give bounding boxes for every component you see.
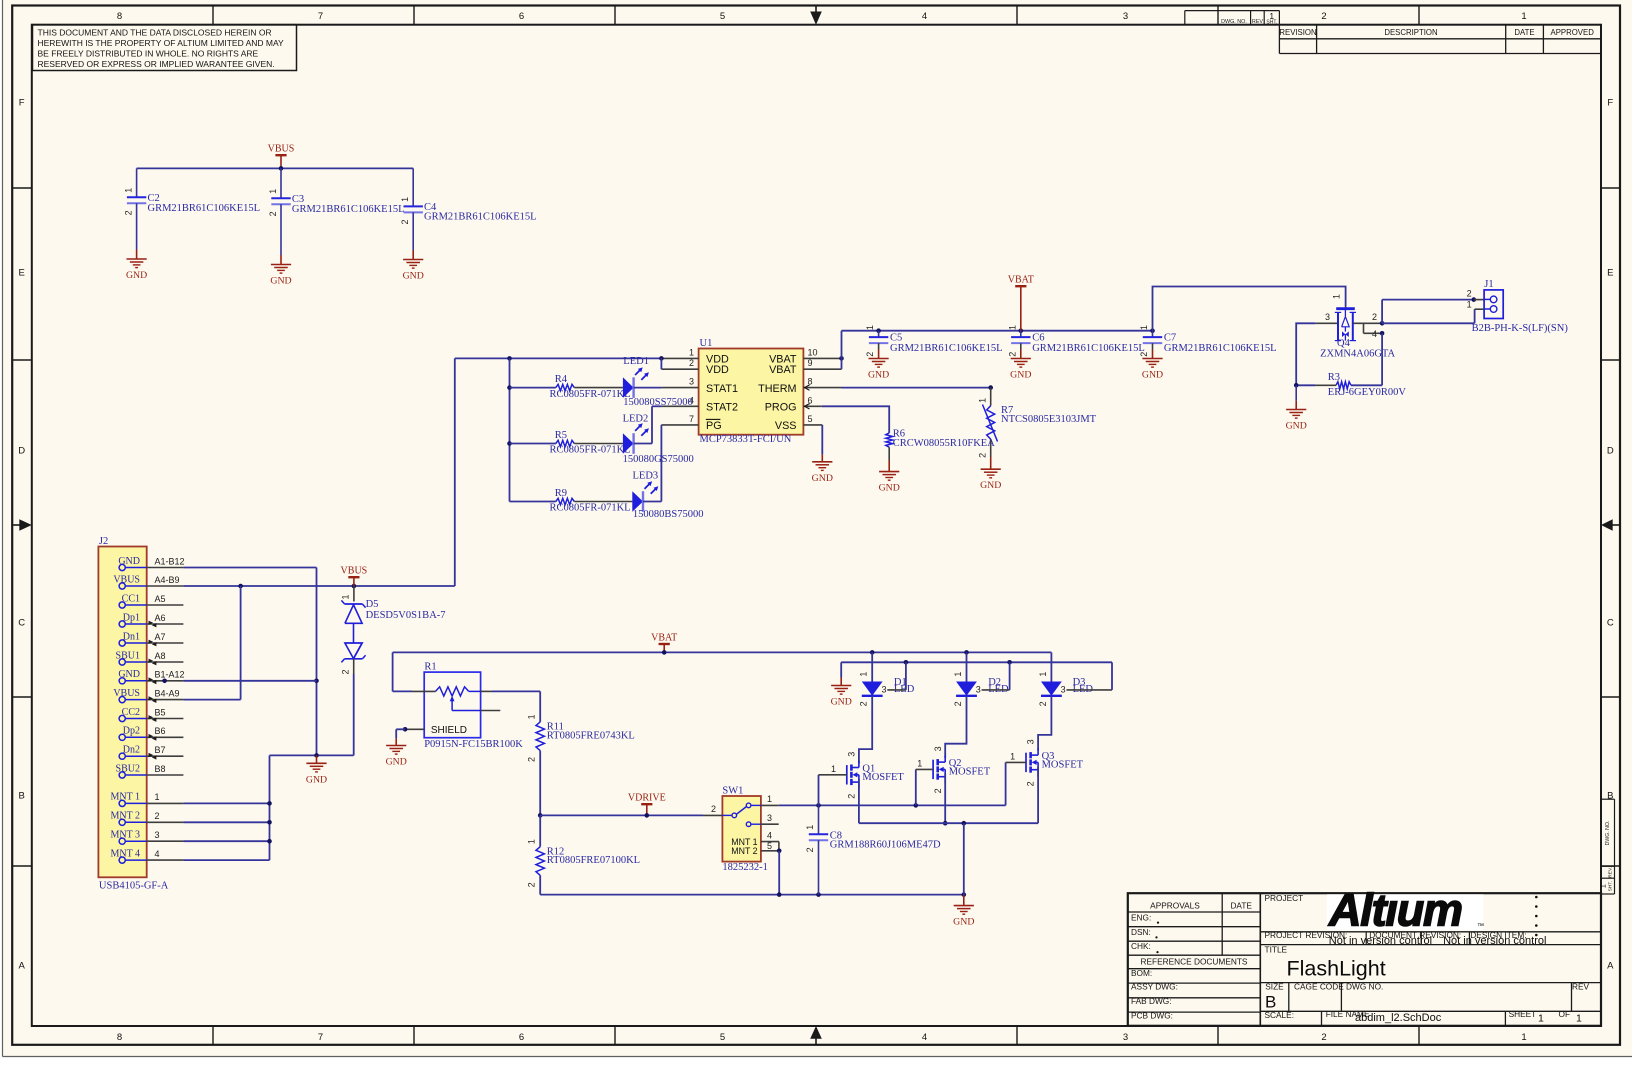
power port VBAT (caps)	[1020, 286, 1022, 331]
svg-text:1: 1	[1467, 299, 1472, 309]
ground symbol for R7	[990, 457, 992, 469]
svg-text:A: A	[19, 960, 26, 971]
U1 pin 1 VDD	[661, 357, 698, 359]
junction D2 pad rail	[1007, 660, 1012, 665]
wire J2 GND A1-B12	[183, 567, 316, 569]
net source rail	[859, 822, 1038, 824]
wire VBUS to U1	[454, 358, 456, 586]
svg-text:3: 3	[933, 746, 943, 751]
svg-text:1: 1	[1521, 11, 1526, 22]
svg-text:SW1: SW1	[722, 785, 743, 796]
svg-text:Dn1: Dn1	[123, 631, 140, 642]
svg-text:B8: B8	[155, 764, 166, 774]
junction C6/VBAT port	[1019, 328, 1024, 333]
svg-text:DATE: DATE	[1514, 28, 1534, 37]
svg-text:CHK:: CHK:	[1131, 941, 1151, 951]
junction J2 ground	[314, 753, 319, 758]
svg-text:2: 2	[155, 811, 160, 821]
wire LED2 to STAT2	[634, 443, 652, 445]
resistor R1 P0915N-FC15BR100K	[424, 672, 480, 738]
svg-text:GND: GND	[306, 774, 327, 785]
junction source/ground drop	[962, 821, 967, 826]
U1 pin 9 VBAT	[803, 368, 841, 370]
svg-text:B5: B5	[155, 707, 166, 717]
transistor Q3 MOSFET	[1025, 753, 1027, 772]
svg-text:REV: REV	[1572, 981, 1590, 991]
svg-text:MCP73833T-FCI/UN: MCP73833T-FCI/UN	[700, 434, 792, 445]
svg-text:1: 1	[831, 764, 836, 774]
svg-text:GRM21BR61C106KE15L: GRM21BR61C106KE15L	[148, 203, 261, 214]
junction VBUS/D5	[352, 584, 357, 589]
junction C8 ground	[816, 892, 821, 897]
svg-text:1: 1	[527, 839, 537, 844]
junction R7	[988, 385, 993, 390]
junction R5 row	[507, 441, 512, 446]
svg-text:1: 1	[155, 792, 160, 802]
svg-text:MNT 2: MNT 2	[731, 846, 757, 856]
J2 pin B1-A12 (GND)	[119, 678, 125, 684]
resistor R3 ERJ-6GEY0R00V	[1351, 384, 1382, 386]
svg-text:Dp1: Dp1	[123, 612, 140, 623]
svg-text:GND: GND	[868, 370, 889, 381]
svg-text:GND: GND	[118, 669, 140, 680]
svg-text:GRM21BR61C106KE15L: GRM21BR61C106KE15L	[292, 204, 405, 215]
LED LED1 150080SS75000	[623, 377, 634, 398]
capacitor C5	[878, 331, 880, 337]
net VBUS top rail wire	[137, 167, 414, 169]
svg-text:abdim_l2.SchDoc: abdim_l2.SchDoc	[1355, 1012, 1442, 1024]
ground symbol for VSS	[821, 454, 823, 461]
ground symbol for C3	[280, 255, 282, 265]
svg-text:150080BS75000: 150080BS75000	[633, 509, 704, 520]
wire D3 cathode to Q3	[1038, 696, 1051, 750]
svg-text:2: 2	[977, 453, 987, 458]
SW1 pin 2	[703, 814, 722, 816]
svg-text:B: B	[1265, 993, 1276, 1012]
svg-text:2: 2	[1026, 781, 1036, 786]
wire J2 MNT pins	[183, 802, 269, 804]
svg-text:HEREWITH IS THE PROPERTY OF AL: HEREWITH IS THE PROPERTY OF ALTIUM LIMIT…	[38, 38, 285, 48]
junction rail ground	[962, 892, 967, 897]
J2 pin 3 (MNT 3)	[119, 838, 125, 844]
wire GND rail under J2	[270, 754, 354, 756]
J2 pin B6 (Dp2)	[119, 734, 125, 740]
svg-text:C: C	[18, 617, 25, 628]
svg-text:SBU1: SBU1	[116, 650, 140, 661]
J2 pin A7 (Dn1)	[119, 640, 125, 646]
svg-text:1: 1	[1007, 325, 1017, 330]
junction R4 row	[507, 385, 512, 390]
svg-text:OF: OF	[1559, 1009, 1571, 1019]
svg-text:1: 1	[865, 325, 875, 330]
wire Q4 pin4 to R3	[1381, 333, 1383, 385]
svg-text:ASSY DWG:: ASSY DWG:	[1131, 982, 1178, 992]
svg-text:4: 4	[155, 849, 160, 859]
svg-text:LED3: LED3	[633, 470, 659, 481]
svg-text:APPROVALS: APPROVALS	[1150, 901, 1200, 911]
wire pin2 tie	[660, 358, 662, 369]
junction VDD bus	[507, 356, 512, 361]
LED D2	[956, 682, 977, 696]
svg-text:CC1: CC1	[122, 593, 140, 604]
svg-text:5: 5	[808, 414, 813, 424]
capacitor C6	[1020, 331, 1022, 337]
svg-text:A7: A7	[155, 632, 166, 642]
svg-text:A6: A6	[155, 613, 166, 623]
J2 pin 2 (MNT 2)	[119, 819, 125, 825]
svg-text:3: 3	[881, 685, 886, 695]
svg-text:A: A	[1607, 960, 1614, 971]
svg-text:6: 6	[519, 11, 524, 22]
svg-text:GRM21BR61C106KE15L: GRM21BR61C106KE15L	[890, 343, 1003, 354]
svg-text:DSN:: DSN:	[1131, 927, 1151, 937]
svg-text:STAT1: STAT1	[706, 383, 738, 395]
svg-text:FlashLight: FlashLight	[1287, 956, 1386, 980]
svg-text:NTCS0805E3103JMT: NTCS0805E3103JMT	[1001, 414, 1097, 425]
svg-text:R4: R4	[555, 374, 568, 385]
svg-text:GND: GND	[953, 917, 974, 928]
wire R1 to R11	[481, 690, 492, 692]
svg-text:LED2: LED2	[623, 414, 649, 425]
svg-text:7: 7	[318, 1032, 323, 1043]
svg-text:R3: R3	[1328, 372, 1340, 383]
svg-text:2: 2	[400, 219, 410, 224]
svg-text:6: 6	[519, 1032, 524, 1043]
svg-text:3: 3	[689, 377, 694, 387]
capacitor C3	[280, 168, 282, 198]
svg-text:4: 4	[767, 830, 772, 840]
junction J1 pin2	[1472, 297, 1477, 302]
SW1 pin 5 MNT 2	[761, 850, 779, 852]
ground symbol for C5	[878, 350, 880, 359]
IC U1 MCP73833T-FCI/UN body	[699, 349, 804, 435]
svg-text:VDD: VDD	[706, 364, 729, 376]
J2 pin B7 (Dn2)	[119, 753, 125, 759]
svg-text:1: 1	[859, 672, 869, 677]
svg-text:3: 3	[155, 830, 160, 840]
svg-text:MOSFET: MOSFET	[862, 772, 904, 783]
junction at VBUS/C3	[279, 166, 284, 171]
LED D2 pad pin	[982, 689, 1010, 691]
J2 pin A1-B12 (GND)	[119, 564, 125, 570]
junction Q2 source	[943, 821, 948, 826]
svg-text:B: B	[19, 790, 25, 801]
svg-text:2: 2	[1321, 1032, 1326, 1043]
net ground rail bottom	[540, 894, 964, 896]
svg-text:GND: GND	[403, 271, 424, 282]
svg-text:GND: GND	[126, 270, 147, 281]
svg-text:REFERENCE DOCUMENTS: REFERENCE DOCUMENTS	[1141, 957, 1248, 967]
svg-text:CAGE CODE: CAGE CODE	[1294, 981, 1344, 991]
ground symbol SHIELD	[395, 738, 397, 745]
svg-text:150080GS75000: 150080GS75000	[623, 454, 694, 465]
svg-text:1: 1	[689, 347, 694, 357]
svg-text:CRCW08055R10FKEA: CRCW08055R10FKEA	[893, 438, 996, 449]
svg-text:A8: A8	[155, 651, 166, 661]
svg-text:2: 2	[865, 352, 875, 357]
net VBAT capacitor rail	[842, 330, 1153, 332]
svg-text:Not in version control: Not in version control	[1443, 935, 1546, 947]
net gate rail from SW1	[779, 804, 1006, 806]
junction C5	[876, 328, 881, 333]
svg-text:THIS DOCUMENT AND THE DATA DIS: THIS DOCUMENT AND THE DATA DISCLOSED HER…	[38, 27, 272, 37]
svg-text:SHIELD: SHIELD	[431, 725, 467, 736]
svg-text:DESCRIPTION: DESCRIPTION	[1384, 28, 1437, 37]
svg-text:GND: GND	[879, 483, 900, 494]
svg-text:PCB DWG:: PCB DWG:	[1131, 1011, 1173, 1021]
svg-text:GND: GND	[1010, 370, 1031, 381]
svg-text:1: 1	[1521, 1032, 1526, 1043]
svg-text:PROG: PROG	[765, 402, 797, 414]
svg-text:Dp2: Dp2	[123, 726, 140, 737]
svg-text:VBAT: VBAT	[651, 632, 677, 643]
ground symbol for C7	[1152, 350, 1154, 359]
svg-text:MNT 3: MNT 3	[110, 830, 140, 841]
svg-text:3: 3	[1061, 685, 1066, 695]
svg-text:1: 1	[767, 794, 772, 804]
svg-text:LED1: LED1	[623, 356, 649, 367]
wire Q4 to J1 pin2	[1381, 300, 1383, 324]
svg-text:A4-B9: A4-B9	[155, 575, 180, 585]
svg-text:P0915N-FC15BR100K: P0915N-FC15BR100K	[424, 739, 523, 750]
Q3 gate wire	[1005, 762, 1007, 805]
svg-text:DWG. NO.: DWG. NO.	[1605, 821, 1611, 846]
svg-text:2: 2	[805, 847, 815, 852]
junction VBUS/B4-A9	[238, 584, 243, 589]
svg-text:U1: U1	[700, 338, 713, 349]
svg-text:GND: GND	[1286, 421, 1307, 432]
svg-text:3: 3	[1325, 312, 1330, 322]
J2 pin A8 (SBU1)	[119, 659, 125, 665]
Q4 gate pin 3	[1316, 322, 1338, 324]
wire LED3 to PG	[643, 501, 661, 503]
wire J2 B4-A9 riser	[240, 586, 242, 700]
svg-text:A1-B12: A1-B12	[155, 556, 185, 566]
svg-text:1: 1	[1599, 884, 1608, 888]
svg-text:STAT2: STAT2	[706, 402, 738, 414]
wire J2 VBUS A4-B9	[183, 585, 454, 587]
SW1 pin 3	[761, 823, 779, 825]
svg-text:SBU2: SBU2	[116, 763, 140, 774]
wire Q4 gate net	[1296, 323, 1316, 385]
power port VBAT (rail)	[663, 644, 665, 652]
LED sub-rail to grounds	[841, 661, 1112, 663]
svg-text:VBAT: VBAT	[769, 364, 797, 376]
svg-text:7: 7	[318, 11, 323, 22]
svg-text:2: 2	[124, 210, 134, 215]
svg-text:GND: GND	[831, 697, 852, 708]
svg-text:B1-A12: B1-A12	[155, 670, 185, 680]
Altium logo	[1327, 894, 1484, 930]
svg-text:5: 5	[720, 1032, 725, 1043]
transistor Q4 ZXMN4A06GTA	[1345, 306, 1347, 309]
LED D1 pad pin	[887, 689, 906, 691]
svg-text:VDRIVE: VDRIVE	[628, 793, 666, 804]
svg-text:GND: GND	[980, 480, 1001, 491]
LED D1	[862, 682, 883, 696]
svg-text:1: 1	[977, 398, 987, 403]
net VDRIVE rail	[540, 814, 703, 816]
svg-text:APPROVED: APPROVED	[1551, 28, 1595, 37]
wire source rail to ground rail	[963, 823, 965, 894]
svg-text:ENG:: ENG:	[1131, 912, 1151, 922]
wire VBUS to U1 VDD	[455, 357, 662, 359]
resistor R9 RC0805FR-071KL	[510, 501, 556, 503]
svg-text:SHEET: SHEET	[1509, 1009, 1537, 1019]
svg-text:E: E	[19, 267, 25, 278]
capacitor C4	[412, 168, 414, 206]
Q2 gate wire	[915, 769, 917, 805]
svg-text:C: C	[1607, 617, 1614, 628]
capacitor C7	[1152, 331, 1154, 337]
svg-text:DWG. NO.: DWG. NO.	[1221, 19, 1247, 25]
junction D2 anode	[964, 650, 969, 655]
junction Q4 source	[1380, 321, 1385, 326]
junction D1 anode	[870, 650, 875, 655]
svg-text:Not in version control: Not in version control	[1329, 935, 1432, 947]
svg-text:2: 2	[847, 794, 857, 799]
svg-text:SHT.: SHT.	[1608, 881, 1614, 891]
svg-text:RC0805FR-071KL: RC0805FR-071KL	[550, 445, 631, 456]
svg-text:VSS: VSS	[775, 420, 797, 432]
U1 pin 8 THERM	[803, 387, 841, 389]
svg-text:GRM188R60J106ME47D: GRM188R60J106ME47D	[830, 840, 941, 851]
resistor R12 RT0805FRE07100KL	[539, 815, 541, 846]
svg-text:2: 2	[1372, 312, 1377, 322]
LED D2 anode wire	[966, 652, 968, 681]
svg-text:3: 3	[976, 685, 981, 695]
junction R3/gate/GND	[1294, 383, 1299, 388]
U1 pin 2 VDD	[661, 368, 698, 370]
connector J1 B2B-PH-K-S(LF)(SN)	[1474, 299, 1484, 301]
J2 pin B8 (SBU2)	[119, 772, 125, 778]
svg-text:R9: R9	[555, 488, 567, 499]
svg-text:GRM21BR61C106KE15L: GRM21BR61C106KE15L	[1164, 343, 1277, 354]
svg-text:7: 7	[689, 414, 694, 424]
svg-text:2: 2	[711, 804, 716, 814]
resistor R5 RC0805FR-071KL	[510, 443, 556, 445]
svg-text:3: 3	[847, 752, 857, 757]
svg-text:4: 4	[922, 1032, 927, 1043]
svg-text:1: 1	[268, 189, 278, 194]
svg-text:3: 3	[767, 813, 772, 823]
svg-text:B2B-PH-K-S(LF)(SN): B2B-PH-K-S(LF)(SN)	[1472, 323, 1569, 334]
svg-text:Dn2: Dn2	[123, 745, 140, 756]
junction VBAT pins 9-10	[839, 356, 844, 361]
svg-text:1: 1	[1332, 294, 1342, 299]
svg-text:8: 8	[117, 11, 122, 22]
svg-text:CC2: CC2	[122, 707, 140, 718]
svg-text:Altıum: Altıum	[1328, 885, 1462, 936]
U1 pin 7 PG	[661, 424, 698, 426]
transistor Q2 MOSFET	[932, 760, 934, 779]
U1 pin 4 STAT2	[662, 405, 699, 407]
svg-text:BOM:: BOM:	[1131, 968, 1152, 978]
U1 pin 6 PROG	[803, 405, 821, 407]
svg-text:D: D	[18, 445, 25, 456]
svg-text:SIZE: SIZE	[1265, 981, 1284, 991]
svg-text:1: 1	[400, 197, 410, 202]
svg-text:RC0805FR-071KL: RC0805FR-071KL	[550, 389, 631, 400]
svg-text:1: 1	[1269, 11, 1274, 21]
svg-text:B6: B6	[155, 726, 166, 736]
R1 SHIELD pin to ground	[405, 728, 424, 730]
junction GND/B1-A12	[314, 679, 319, 684]
wire D1 cathode to Q1	[859, 696, 872, 764]
svg-text:2: 2	[1038, 701, 1048, 706]
svg-text:2: 2	[859, 701, 869, 706]
svg-text:1: 1	[527, 714, 537, 719]
svg-text:DESD5V0S1BA-7: DESD5V0S1BA-7	[366, 610, 446, 621]
svg-text:4: 4	[922, 11, 927, 22]
svg-text:F: F	[1607, 97, 1613, 108]
svg-text:B4-A9: B4-A9	[155, 688, 180, 698]
diode D5 DESD5V0S1BA-7	[353, 586, 355, 602]
wire Q4 to J1 pin1	[1382, 322, 1475, 324]
J2 pin 4 (MNT 4)	[119, 857, 125, 863]
Q1 source wire	[858, 779, 860, 823]
ground symbol for C4	[412, 250, 414, 260]
svg-text:F: F	[19, 97, 25, 108]
U1 pin 5 VSS	[803, 424, 822, 426]
wire D2 cathode to Q2	[945, 696, 966, 758]
thermistor R7 NTCS0805E3103JMT	[990, 388, 992, 406]
svg-text:1: 1	[1538, 1013, 1544, 1025]
svg-text:1: 1	[1038, 672, 1048, 677]
junction Q4 pin4	[1380, 331, 1385, 336]
svg-text:USB4105-GF-A: USB4105-GF-A	[99, 881, 169, 892]
svg-text:1: 1	[124, 188, 134, 193]
net VBAT rail	[393, 651, 1052, 653]
svg-text:D: D	[1607, 445, 1614, 456]
svg-text:5: 5	[767, 841, 772, 851]
svg-text:2: 2	[527, 757, 537, 762]
wire D5 to ground rail	[353, 659, 355, 674]
svg-text:2: 2	[689, 358, 694, 368]
wire VSS to ground	[821, 425, 823, 455]
svg-text:MOSFET: MOSFET	[949, 766, 991, 777]
svg-text:™: ™	[1477, 923, 1484, 930]
svg-text:DATE: DATE	[1230, 901, 1252, 911]
U1 pin 10 VBAT	[803, 357, 841, 359]
svg-text:2: 2	[1139, 352, 1149, 357]
junction C7	[1150, 328, 1155, 333]
svg-text:R5: R5	[555, 430, 567, 441]
svg-text:3: 3	[1123, 11, 1128, 22]
svg-text:GRM21BR61C106KE15L: GRM21BR61C106KE15L	[424, 211, 537, 222]
svg-text:3: 3	[1026, 739, 1036, 744]
wire PROG to R6	[822, 406, 889, 433]
svg-text:1: 1	[1576, 1013, 1582, 1025]
svg-text:1: 1	[340, 594, 350, 599]
J2 pin 1 (MNT 1)	[119, 800, 125, 806]
svg-text:2: 2	[1007, 352, 1017, 357]
Q4 pin 4	[1363, 323, 1365, 333]
svg-text:5: 5	[720, 11, 725, 22]
disclaimer text box	[33, 25, 297, 71]
LED LED3 150080BS75000	[632, 491, 643, 512]
svg-text:DWG NO.: DWG NO.	[1346, 981, 1383, 991]
junction Q2 gate	[914, 803, 919, 808]
wire VBAT to R1	[392, 652, 394, 691]
svg-text:9: 9	[808, 358, 813, 368]
svg-text:TITLE: TITLE	[1265, 945, 1288, 955]
svg-text:VBUS: VBUS	[341, 566, 368, 577]
power port VBUS (top)	[280, 155, 282, 168]
svg-text:2: 2	[268, 211, 278, 216]
junction SW1 ground	[777, 892, 782, 897]
SW1 pin 4 MNT 1	[761, 841, 779, 843]
